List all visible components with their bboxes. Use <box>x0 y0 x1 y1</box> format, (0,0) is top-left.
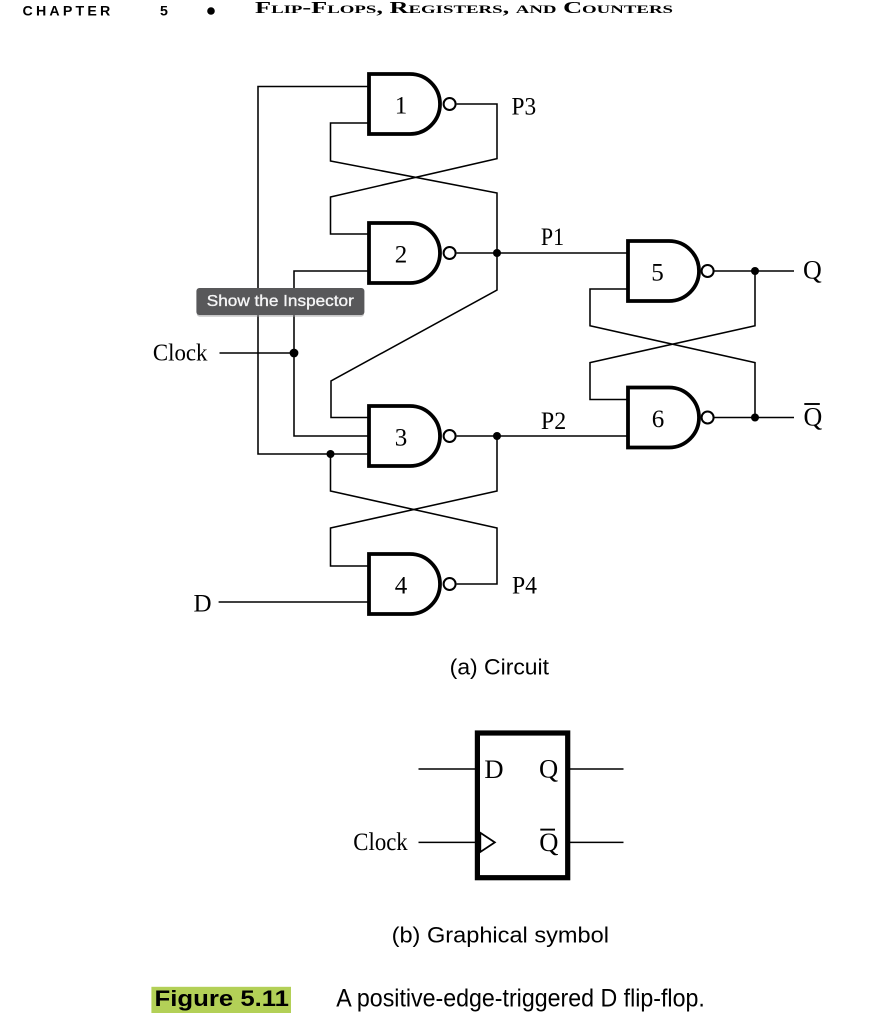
NAND gate 6 <box>628 388 714 448</box>
flip-flop symbol box <box>477 733 567 878</box>
wire D input (symbol) <box>419 768 478 770</box>
figure caption highlight box <box>151 987 291 1013</box>
svg-text:P2: P2 <box>541 408 566 435</box>
node P4 junction <box>327 450 335 458</box>
wire net P1 branch: to gate3 top input <box>331 253 497 418</box>
wire net P2: gate3 output to gate6 bottom input <box>457 435 628 437</box>
wire net P2 branch: to gate4 top input <box>331 436 498 566</box>
svg-text:5: 5 <box>651 260 664 287</box>
NAND gate 5 <box>628 241 714 301</box>
wire net Q: gate5 output to Q label <box>715 270 795 272</box>
svg-text:Q: Q <box>539 827 558 857</box>
svg-text:3: 3 <box>395 425 408 452</box>
wire net Qbar: gate6 output to Qbar label <box>715 417 795 419</box>
svg-text:(a) Circuit: (a) Circuit <box>450 654 550 679</box>
wire net P3: gate1 output to gate2 top input <box>331 104 498 234</box>
node Q junction <box>751 267 759 275</box>
NAND gate 2 <box>369 223 456 283</box>
svg-text:Figure 5.11: Figure 5.11 <box>155 986 290 1011</box>
svg-text:6: 6 <box>652 406 665 433</box>
wire net Qbar branch: to gate5 bottom input <box>590 289 755 418</box>
svg-text:A positive-edge-triggered D fl: A positive-edge-triggered D flip-flop. <box>336 985 705 1013</box>
node Qbar junction <box>751 414 759 422</box>
label Qbar (symbol) <box>539 827 558 857</box>
NAND gate 3 (3-input) <box>369 406 456 466</box>
svg-text:4: 4 <box>395 573 408 600</box>
wire net P1: gate2 output to gate5 top input <box>457 252 628 254</box>
svg-text:Q: Q <box>803 255 822 284</box>
svg-text:Show the Inspector: Show the Inspector <box>207 293 354 310</box>
wire Clock input (symbol) <box>419 841 478 843</box>
label Qbar (circuit) <box>804 403 823 432</box>
svg-text:P3: P3 <box>512 94 537 121</box>
svg-text:CHAPTER: CHAPTER <box>23 3 114 19</box>
wire net Clock: from Clock label to gate2 bottom input and gate3 middle input <box>220 271 370 436</box>
svg-text:1: 1 <box>395 93 408 120</box>
wire net P1 branch: to gate1 bottom input <box>331 123 498 253</box>
svg-text:Q: Q <box>804 403 823 432</box>
svg-text:(b) Graphical symbol: (b) Graphical symbol <box>392 922 609 947</box>
wire net P4: gate4 output to gate3 bottom input and gate1 top input <box>258 87 497 585</box>
svg-text:Flip-Flops, Registers, and Cou: Flip-Flops, Registers, and Counters <box>255 0 673 17</box>
node Clock junction <box>290 349 299 358</box>
tooltip "Show the Inspector" <box>196 288 364 317</box>
clock edge triangle (symbol) <box>480 833 495 852</box>
svg-text:P4: P4 <box>512 573 537 600</box>
svg-text:Clock: Clock <box>353 828 408 856</box>
svg-text:P1: P1 <box>541 224 564 251</box>
svg-text:Clock: Clock <box>153 341 208 367</box>
NAND gate 1 <box>369 74 456 134</box>
svg-text:Q: Q <box>539 754 558 784</box>
wire net Q branch: to gate6 top input <box>590 271 755 400</box>
svg-text:D: D <box>194 591 212 618</box>
svg-text:5: 5 <box>160 3 168 19</box>
node P2 junction <box>493 432 501 440</box>
header bullet <box>207 7 215 15</box>
wire Qbar output (symbol) <box>568 841 624 843</box>
svg-text:2: 2 <box>395 242 408 269</box>
wire Q output (symbol) <box>568 768 624 770</box>
svg-text:D: D <box>484 754 503 784</box>
node P1 junction <box>493 249 501 257</box>
NAND gate 4 <box>369 554 456 614</box>
wire net D: from D label to gate4 bottom input <box>219 601 369 603</box>
